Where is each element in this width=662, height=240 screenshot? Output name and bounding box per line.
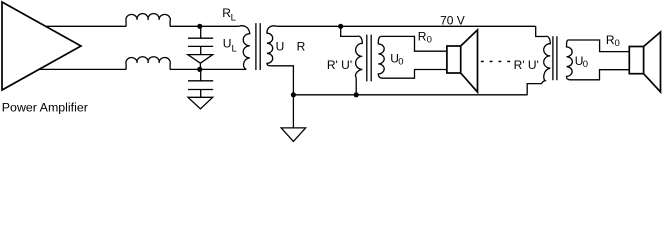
- svg-text:L: L: [232, 44, 237, 55]
- speaker LS1: [447, 30, 478, 92]
- wire: top inductor to node: [170, 25, 239, 27]
- wire: T1 secondary bottom to ground node: [270, 66, 293, 95]
- svg-text:0: 0: [398, 56, 403, 67]
- ellipsis dots (repeated branches): [481, 61, 510, 63]
- capacitor C1 lead from top rail: [200, 26, 202, 38]
- node: junction dot bottom rail branch 1: [354, 92, 359, 97]
- ground symbol (open triangle) below C1: [188, 46, 213, 69]
- wire: T3 secondary bottom to speaker LS2: [571, 70, 630, 80]
- wire: T2 secondary top to speaker LS1: [382, 36, 447, 51]
- wire: bottom return rail: [293, 94, 527, 96]
- svg-text:70 V: 70 V: [440, 14, 465, 28]
- wire: 70V top rail: [277, 25, 536, 27]
- wire: T3 primary bottom to return rail: [527, 84, 542, 95]
- svg-text:Power Amplifier: Power Amplifier: [2, 101, 88, 115]
- transformer T2 core: [367, 35, 371, 82]
- inductor L2 (bottom line): [126, 57, 170, 70]
- svg-text:U: U: [276, 40, 285, 54]
- capacitor C2 plates: [188, 81, 213, 90]
- svg-text:R' U': R' U': [514, 58, 539, 72]
- speaker LS2: [629, 32, 660, 92]
- svg-text:U: U: [223, 37, 232, 51]
- svg-text:R: R: [418, 30, 427, 44]
- ground G1 lead: [292, 95, 294, 128]
- op-amp U1: power amplifier triangle: [2, 2, 81, 90]
- inductor L1 (top line): [126, 14, 170, 27]
- node: junction dot at ground: [291, 92, 296, 97]
- capacitor C2 lead from bottom wire: [200, 69, 202, 80]
- wire: branch1 drop to T2 primary: [341, 26, 358, 36]
- wire: T2 primary bottom to return rail: [355, 78, 357, 95]
- wire: amp bottom output: [39, 68, 127, 70]
- wire: T3 secondary top to speaker LS2: [569, 40, 630, 52]
- ground G1 (open triangle): [281, 128, 305, 141]
- wire: bottom inductor to node: [170, 68, 246, 70]
- node: junction dot bottom wire at UL: [197, 67, 202, 72]
- transformer T1 core: [256, 23, 260, 70]
- svg-text:L: L: [231, 13, 236, 24]
- capacitor C1 plates: [188, 38, 213, 46]
- svg-text:R: R: [297, 40, 306, 54]
- ground symbol (open triangle) below C2: [188, 90, 213, 109]
- transformer T1 primary winding: [239, 26, 250, 70]
- wire: top rail end drop to T3 primary: [536, 26, 546, 36]
- transformer T1 secondary winding: [267, 26, 277, 66]
- transformer T2 secondary winding: [378, 36, 384, 78]
- transformer T3 secondary winding: [567, 40, 573, 80]
- svg-text:0: 0: [583, 59, 588, 70]
- node: junction dot top rail at RL: [197, 24, 202, 29]
- wire: amp top output: [46, 25, 127, 27]
- transformer T2 primary winding: [356, 36, 363, 77]
- transformer T3 core: [553, 36, 557, 80]
- svg-text:0: 0: [427, 35, 432, 46]
- svg-text:0: 0: [615, 38, 620, 49]
- svg-text:R' U': R' U': [327, 58, 352, 72]
- wire: T2 secondary bottom to speaker LS1: [383, 70, 447, 79]
- transformer T3 primary winding: [542, 36, 550, 83]
- node: junction dot top rail branch 1: [338, 24, 343, 29]
